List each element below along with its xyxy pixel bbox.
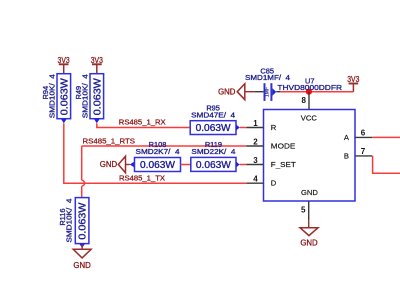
svg-text:SMD10K/ 4: SMD10K/ 4 — [47, 74, 56, 118]
power 3V3 (above R94) — [58, 56, 70, 74]
svg-text:GND: GND — [300, 238, 318, 247]
pin 2 wire — [246, 145, 263, 147]
svg-text:SMD1MF/ 4: SMD1MF/ 4 — [245, 73, 290, 82]
svg-text:6: 6 — [361, 129, 366, 138]
pin 7 wire (black stub) — [355, 155, 372, 157]
resistor R95 — [190, 104, 240, 135]
power 3V3 (right) — [347, 75, 359, 92]
svg-text:GND: GND — [73, 261, 91, 270]
svg-text:5: 5 — [301, 206, 306, 215]
ground GND (at R108) — [100, 156, 130, 172]
resistor R119 — [191, 140, 240, 171]
wire pin 7 step to edge — [373, 156, 400, 173]
svg-text:0.063W: 0.063W — [196, 160, 232, 171]
pin 3 wire — [246, 164, 263, 166]
svg-text:0.063W: 0.063W — [92, 78, 103, 116]
svg-text:SMD10K/ 4: SMD10K/ 4 — [65, 199, 74, 243]
ground GND (below R116) — [73, 245, 91, 270]
ground GND (pin 5) — [300, 228, 318, 248]
svg-text:THVD8000DDFR: THVD8000DDFR — [277, 83, 342, 92]
resistor R116 — [58, 198, 89, 248]
svg-text:RS485_1_RX: RS485_1_RX — [119, 118, 166, 127]
svg-text:RS485_1_RTS: RS485_1_RTS — [83, 136, 136, 145]
resistor R49 — [74, 74, 104, 124]
capacitor C85 — [245, 66, 290, 101]
svg-text:R: R — [271, 123, 277, 132]
wire C85 to 3V3 and pin 8 — [280, 91, 353, 93]
svg-text:1MF: 1MF — [264, 87, 270, 97]
svg-text:1: 1 — [253, 119, 258, 128]
resistor R94 — [41, 74, 71, 124]
svg-text:0.063W: 0.063W — [196, 123, 232, 134]
svg-text:VCC: VCC — [301, 113, 318, 122]
svg-text:SMD47E/ 4: SMD47E/ 4 — [191, 110, 235, 119]
svg-text:7: 7 — [361, 147, 366, 156]
pin 6 wire (black stub) — [355, 136, 372, 138]
svg-text:0.063W: 0.063W — [78, 202, 89, 240]
svg-text:MODE: MODE — [271, 142, 296, 151]
IC U7 body — [264, 110, 356, 202]
svg-text:SMD2K7/ 4: SMD2K7/ 4 — [136, 147, 180, 156]
wire R119 to pin 3 — [240, 164, 247, 166]
wire R94 down to TX net — [64, 123, 247, 183]
svg-text:0.063W: 0.063W — [59, 78, 70, 116]
junction dot — [306, 89, 312, 95]
svg-text:RS485_1_TX: RS485_1_TX — [119, 174, 165, 183]
svg-text:8: 8 — [302, 96, 307, 105]
pin 5 wire — [308, 201, 310, 220]
ground GND (at C85) — [218, 84, 254, 100]
svg-text:SMD22K/ 4: SMD22K/ 4 — [191, 147, 235, 156]
svg-text:3: 3 — [253, 156, 258, 165]
svg-text:F_SET: F_SET — [271, 160, 296, 169]
svg-text:2: 2 — [253, 138, 258, 147]
wire R95 to pin 1 — [240, 127, 247, 129]
svg-text:GND: GND — [301, 188, 318, 197]
power 3V3 (above R49) — [91, 56, 103, 74]
resistor R108 — [130, 140, 181, 171]
svg-text:SMD10K/ 4: SMD10K/ 4 — [80, 74, 89, 118]
wire R49 down to RX net — [97, 123, 190, 127]
wire R108 to R119 — [181, 164, 191, 166]
pin 8 wire — [308, 92, 310, 110]
svg-text:B: B — [344, 152, 349, 161]
svg-text:0.063W: 0.063W — [140, 160, 176, 171]
pin 4 wire — [246, 182, 263, 184]
wire RTS down to R116 with hop over TX — [82, 146, 85, 198]
wire pin 6 to edge — [372, 136, 400, 138]
svg-text:D: D — [271, 179, 277, 188]
svg-text:GND: GND — [100, 160, 118, 169]
svg-text:4: 4 — [253, 175, 258, 184]
wire RTS net to pin 2 — [82, 145, 247, 147]
svg-text:GND: GND — [218, 87, 236, 96]
pin 1 wire — [246, 127, 263, 129]
